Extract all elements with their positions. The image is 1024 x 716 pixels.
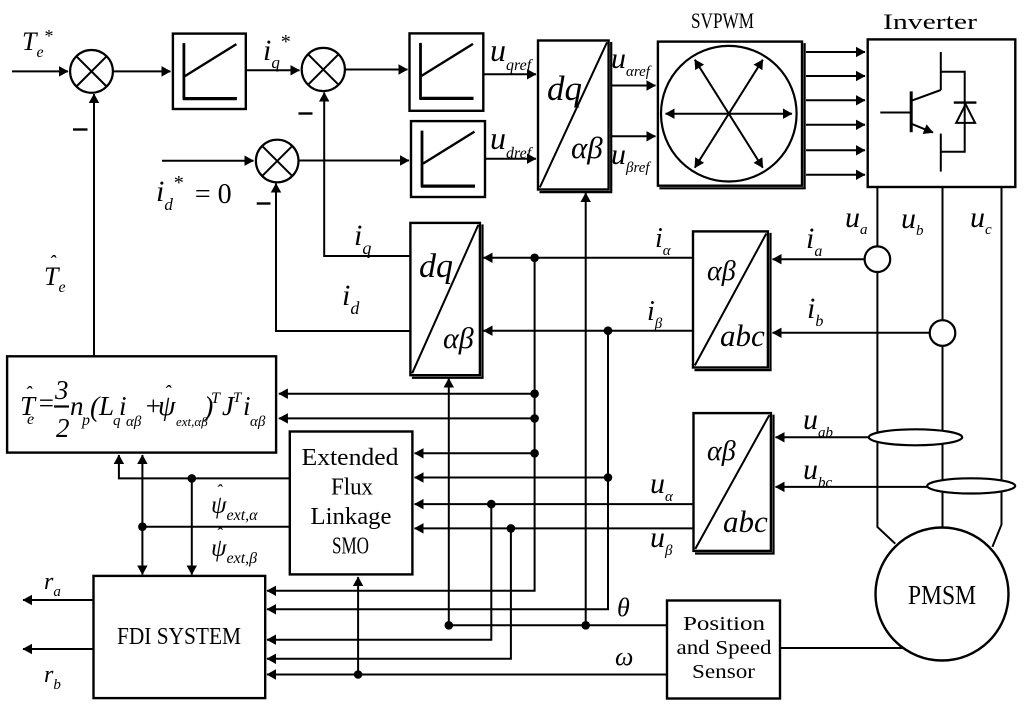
wire S2 to PI block A2 [345, 69, 408, 71]
wire estimated torque Te up to S1 [93, 94, 95, 356]
wire tap into SMO input 2 [415, 477, 609, 479]
wire psi_ext_alpha from SMO to estimator [119, 455, 290, 478]
diagonal of U1 [540, 42, 607, 187]
IGBT gate lead [880, 112, 911, 114]
SVPWM vector arrows [666, 113, 793, 115]
wire udref into dq->ab block [485, 158, 536, 160]
junction dot u_beta tap [507, 524, 516, 533]
svg-text:and Speed: and Speed [677, 637, 772, 659]
svg-text:p: p [81, 412, 90, 429]
wire uab to voltage ab/abc block [776, 436, 869, 438]
current sensor on phase a [865, 246, 891, 272]
svg-text:FDI SYSTEM: FDI SYSTEM [117, 624, 241, 650]
junction dot theta tap [581, 621, 590, 630]
wire residual ra output [23, 599, 94, 601]
wire S3 to PI block A3 [299, 160, 410, 162]
wire tap into torque estimator input 2 [279, 417, 535, 419]
diode triangle [956, 104, 975, 123]
IGBT emitter diagonal with arrow [911, 124, 933, 133]
svg-text:3: 3 [54, 375, 69, 405]
wire u_alpha tap down to FDI input 3 [267, 504, 491, 640]
wire psi_ext_beta from SMO to estimator and FDI [142, 526, 289, 528]
svg-text:SMO: SMO [332, 534, 369, 560]
svg-text:Extended: Extended [302, 445, 399, 471]
svg-text:Inverter: Inverter [883, 9, 978, 34]
PI controller block A1 (torque regulator) [173, 34, 246, 109]
svg-text:L: L [98, 391, 114, 421]
freewheel diode branch top [941, 72, 965, 152]
wire PI A1 to summing junction S2 [246, 69, 300, 71]
junction dot estimator input 1 [530, 389, 539, 398]
wire id feedback from dq/ab transform up into S3 [276, 184, 410, 332]
svg-text:αβ: αβ [571, 130, 603, 165]
svg-text:αβ: αβ [443, 322, 474, 355]
wire i_beta tap down to FDI input 2 [267, 331, 608, 610]
junction dot psi_alpha branch [188, 474, 197, 483]
svg-text:dq: dq [547, 69, 582, 108]
wire i_alpha tap down to FDI input 1 [267, 258, 535, 591]
wire psi_ext_alpha branch down to FDI [191, 478, 193, 574]
wire uqref into dq->ab block [483, 73, 536, 75]
svg-text:dq: dq [419, 248, 453, 285]
SVPWM circle (space vector hexagon) [661, 46, 797, 182]
wire ubc to voltage ab/abc block [776, 486, 928, 488]
wire ua_ref to SVPWM [612, 85, 656, 87]
wire u_beta tap down to FDI input 4 [267, 528, 511, 658]
phase b line ub from inverter to motor [942, 187, 944, 528]
wire theta up into U1 [585, 193, 587, 625]
svg-text:Position: Position [683, 613, 765, 635]
wire u_alpha from U4 to SMO [415, 503, 694, 505]
IGBT gate bar [910, 91, 913, 132]
wire S1 to PI block A1 [113, 70, 171, 72]
wire tap into torque estimator input 1 [279, 393, 535, 395]
wire id*=0 input into summing junction S3 [162, 160, 254, 162]
transform block U2 alphabeta<-abc for currents [693, 231, 768, 367]
wire theta from sensor [449, 624, 667, 626]
wire iq feedback from dq/ab transform up into S2 [324, 93, 410, 257]
wire Te* input into summing junction S1 [12, 70, 68, 72]
junction dot estimator input 2 [530, 414, 539, 423]
svg-text:2: 2 [56, 413, 70, 443]
IGBT collector lead [940, 52, 942, 90]
svg-text:ˆ: ˆ [216, 524, 223, 544]
wire omega from sensor to FDI [267, 674, 667, 676]
wire omega up into SMO [357, 577, 359, 675]
Inverter block [868, 39, 1016, 187]
wire ub_ref to SVPWM [612, 135, 656, 137]
diagonal of U2 [695, 234, 767, 366]
svg-text:PMSM: PMSM [908, 580, 976, 610]
wire ib from sensor to ab/abc block [773, 332, 930, 334]
svg-text:ˆ: ˆ [216, 481, 223, 501]
phase c line uc from inverter to motor [992, 187, 1001, 547]
voltage sensor ellipse uab [869, 429, 962, 445]
Position and Speed Sensor block [667, 601, 780, 699]
junction dot omega tap [354, 670, 363, 679]
junction dot i_beta tap [604, 326, 613, 335]
svg-text:abc: abc [723, 504, 768, 539]
transform block U3 dq<-alphabeta [410, 223, 480, 375]
junction dot u_alpha tap [487, 500, 496, 509]
current sensor on phase b [930, 320, 956, 346]
FDI SYSTEM block [94, 576, 266, 698]
IGBT collector diagonal [911, 90, 941, 101]
svg-text:abc: abc [720, 318, 765, 353]
summing junction S2 [302, 48, 345, 91]
phase a line ua from inverter to motor [877, 187, 895, 544]
junction dot psi_beta branch [138, 522, 147, 531]
IGBT emitter lead [940, 134, 942, 172]
svg-text:e: e [27, 411, 34, 428]
minus sign at S1 [73, 128, 88, 130]
wire residual rb output [23, 648, 94, 650]
torque estimator block (formula) [7, 356, 276, 452]
wire i_alpha from U2 to U3 [484, 257, 694, 259]
junction dot i_alpha tap [530, 253, 539, 262]
svg-text:T: T [211, 390, 221, 407]
PI controller block A3 (d-axis current regulator) [411, 121, 485, 197]
wire PMSM to position sensor [781, 647, 903, 649]
summing junction S1 [70, 50, 113, 93]
wire ia from sensor to ab/abc block [773, 258, 865, 260]
svg-text:ω: ω [615, 642, 633, 671]
svg-text:Flux: Flux [331, 475, 373, 501]
junction dot SMO input 2 [604, 473, 613, 482]
coordinate transform block U1 dq->alphabeta [538, 41, 609, 190]
wire i_beta from U2 to U3 [484, 330, 694, 332]
minus sign at S2 [299, 112, 313, 114]
diagonal of U3 [412, 225, 478, 373]
svg-text:αβ: αβ [707, 436, 736, 467]
summing junction S3 [256, 140, 299, 183]
wire theta up into U3 [448, 379, 450, 626]
svg-text:αβ: αβ [250, 414, 266, 430]
junction dot SMO input 1 [530, 449, 539, 458]
svg-text:αβ: αβ [707, 256, 736, 287]
transform block U4 alphabeta<-abc for voltages [694, 413, 771, 551]
minus sign at S3 [257, 202, 271, 204]
svg-text:αβ: αβ [126, 414, 142, 430]
six gate signal wires SVPWM to Inverter [806, 51, 865, 53]
junction dot theta corner [445, 621, 454, 630]
svg-text:Sensor: Sensor [692, 661, 755, 683]
Extended Flux Linkage SMO block [290, 432, 413, 575]
wire u_beta from U4 to SMO [415, 527, 694, 529]
svg-text:Linkage: Linkage [311, 504, 392, 530]
svg-text:θ: θ [617, 593, 630, 622]
wire tap into SMO input 1 [415, 452, 535, 454]
PI controller block A2 (q-axis current regulator) [410, 33, 484, 110]
svg-text:=: = [37, 388, 55, 418]
diagonal of U4 [695, 415, 769, 549]
svg-text:SVPWM: SVPWM [691, 8, 754, 33]
PMSM motor circle [876, 528, 1009, 661]
diode cathode bar [954, 101, 977, 103]
SVPWM block [658, 42, 802, 186]
formula text Te = 3/2 np (Lq i_ab + psi_ext,ab)T JT i_ab [20, 375, 266, 443]
voltage sensor ellipse ubc [927, 478, 1015, 493]
